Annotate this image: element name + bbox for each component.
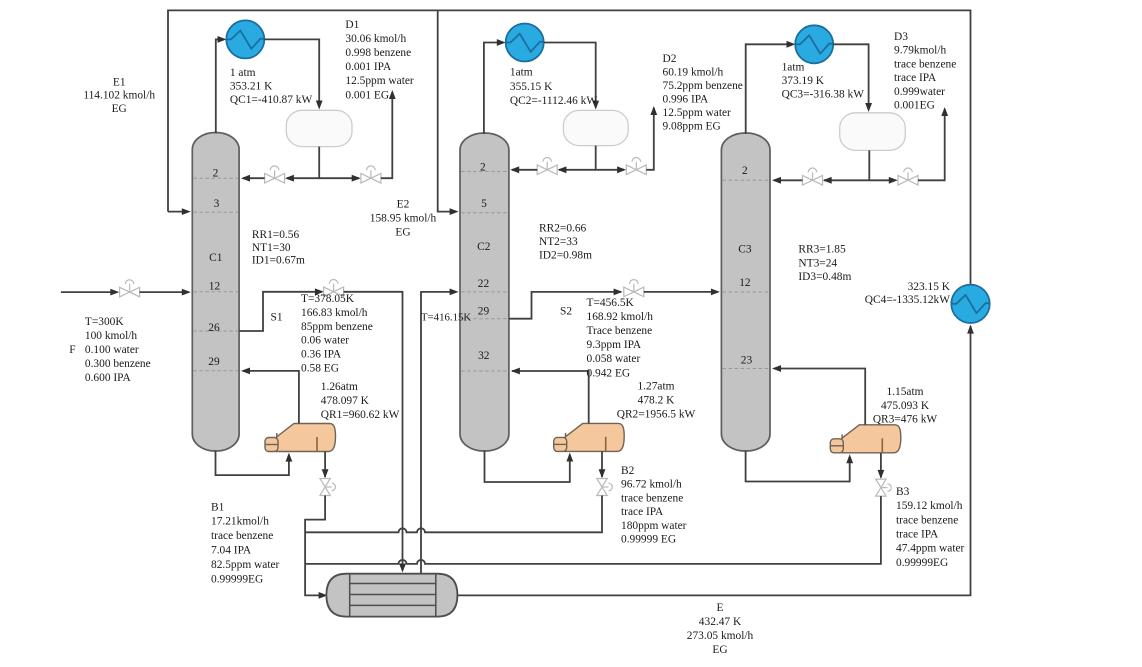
svg-text:30.06 kmol/h: 30.06 kmol/h: [345, 33, 406, 45]
svg-text:114.102 kmol/h: 114.102 kmol/h: [83, 90, 155, 102]
tray line 32 of C2: [461, 370, 508, 372]
wire S2 side draw from C2 tray 29: [509, 292, 621, 319]
svg-text:353.21 K: 353.21 K: [230, 80, 273, 92]
svg-text:17.21kmol/h: 17.21kmol/h: [211, 516, 269, 528]
svg-text:475.093 K: 475.093 K: [881, 400, 930, 412]
valve reflux C3: [803, 168, 823, 185]
tray line 2 of C2: [461, 171, 508, 173]
valve B3: [876, 479, 892, 496]
wire reboiler QR3 vapor return to C3 tray 23: [774, 369, 865, 425]
svg-text:trace benzene: trace benzene: [896, 514, 958, 526]
svg-text:C1: C1: [209, 252, 223, 264]
wire reflux into C1 tray 2: [243, 177, 265, 179]
arrow to reflux valve C1: [285, 175, 294, 182]
svg-text:168.92 kmol/h: 168.92 kmol/h: [587, 311, 654, 323]
svg-text:trace IPA: trace IPA: [894, 72, 937, 84]
svg-text:C3: C3: [738, 244, 752, 256]
svg-text:26: 26: [208, 322, 220, 334]
wire feed F after valve: [140, 291, 188, 293]
svg-text:273.05 kmol/h: 273.05 kmol/h: [687, 630, 754, 642]
svg-text:9.79kmol/h: 9.79kmol/h: [894, 45, 947, 57]
svg-text:96.72 kmol/h: 96.72 kmol/h: [621, 479, 682, 491]
svg-text:QC2=-1112.46 kW: QC2=-1112.46 kW: [510, 95, 597, 107]
wire B3 joining B1 header with line hops: [305, 496, 881, 564]
condenser QC3: [795, 25, 833, 63]
svg-text:0.100 water: 0.100 water: [85, 344, 139, 356]
svg-text:23: 23: [741, 355, 753, 367]
svg-text:32: 32: [478, 350, 490, 362]
svg-text:EG: EG: [395, 227, 410, 239]
svg-text:QR3=476 kW: QR3=476 kW: [873, 414, 938, 426]
reboiler QR3: [842, 425, 901, 453]
svg-text:S1: S1: [271, 311, 283, 323]
svg-text:3: 3: [214, 198, 220, 210]
heat exchanger E shell: [326, 574, 457, 617]
svg-text:2: 2: [213, 167, 219, 179]
reboiler QR1: [277, 424, 336, 452]
condenser QC1: [226, 20, 264, 58]
wire condenser QC3 to reflux drum: [833, 44, 868, 106]
svg-text:B1: B1: [211, 501, 225, 513]
wire S1 to heat exchanger: [344, 292, 403, 571]
svg-text:166.83 kmol/h: 166.83 kmol/h: [301, 307, 368, 319]
wire drum D1 outlet split: [287, 147, 359, 179]
valve reflux C1: [265, 166, 285, 183]
wire B1 bottoms out of reboiler: [324, 452, 326, 478]
svg-text:373.19 K: 373.19 K: [782, 75, 825, 87]
svg-text:75.2ppm benzene: 75.2ppm benzene: [663, 80, 743, 92]
svg-text:0.001 EG: 0.001 EG: [345, 89, 389, 101]
svg-text:EG: EG: [112, 103, 127, 115]
svg-text:5: 5: [481, 198, 487, 210]
svg-text:478.097 K: 478.097 K: [321, 395, 370, 407]
tray line 26 of C1: [194, 330, 239, 332]
wire C3 overhead vapor to condenser: [746, 44, 791, 134]
svg-text:ID2=0.98m: ID2=0.98m: [539, 250, 592, 262]
wire S1 side draw from C1 tray 26: [239, 292, 322, 331]
tray line 22 of C2: [461, 291, 508, 293]
tray line 2 of C1: [194, 177, 239, 179]
svg-text:QC1=-410.87 kW: QC1=-410.87 kW: [230, 94, 313, 106]
svg-text:C2: C2: [477, 241, 491, 253]
svg-text:1.15atm: 1.15atm: [886, 386, 923, 398]
wire top recycle header E: [168, 10, 971, 284]
svg-text:E: E: [717, 602, 724, 614]
svg-text:RR2=0.66: RR2=0.66: [539, 222, 587, 234]
svg-text:0.998 benzene: 0.998 benzene: [345, 47, 411, 59]
svg-text:2: 2: [742, 165, 748, 177]
valve B1: [320, 479, 335, 496]
svg-text:QR1=960.62 kW: QR1=960.62 kW: [321, 409, 400, 421]
svg-text:EG: EG: [712, 644, 727, 656]
valve distillate D1: [361, 166, 381, 183]
wire E2 feed drop into column C2 tray 5: [438, 10, 454, 211]
reboiler QR2: [565, 423, 624, 451]
svg-text:0.999water: 0.999water: [894, 86, 945, 98]
column C2: [460, 133, 509, 451]
svg-text:trace benzene: trace benzene: [621, 492, 683, 504]
tray line 3 of C1: [194, 211, 239, 213]
wire C2 bottoms to reboiler: [485, 451, 570, 483]
wire distillate D2 up: [646, 108, 654, 170]
wire distillate D3 up: [918, 109, 945, 180]
svg-text:D1: D1: [345, 19, 359, 31]
column C1: [192, 133, 239, 452]
svg-text:60.19 kmol/h: 60.19 kmol/h: [663, 66, 724, 78]
valve S2: [624, 280, 644, 297]
valve reflux C2: [537, 158, 557, 175]
wire feed F into C1 tray 12: [61, 291, 111, 293]
svg-text:NT1=30: NT1=30: [252, 242, 291, 254]
wire E outlet to cooler QC4: [457, 326, 970, 595]
wire drum D3 outlet split: [824, 150, 895, 180]
svg-text:NT2=33: NT2=33: [539, 236, 578, 248]
svg-text:0.300 benzene: 0.300 benzene: [85, 358, 151, 370]
svg-text:0.06 water: 0.06 water: [301, 335, 349, 347]
wire reboiler QR1 vapor return to C1 tray 29: [243, 371, 299, 424]
svg-text:1 atm: 1 atm: [230, 67, 256, 79]
svg-text:478.2 K: 478.2 K: [638, 395, 675, 407]
tray line 2 of C3: [723, 179, 769, 181]
svg-text:S2: S2: [560, 305, 572, 317]
svg-text:T=456.5K: T=456.5K: [587, 297, 635, 309]
svg-text:323.15 K: 323.15 K: [908, 281, 951, 293]
svg-text:180ppm water: 180ppm water: [621, 520, 687, 532]
arrow to distillate valve C3: [889, 177, 898, 184]
cooler condenser QC4: [951, 285, 989, 323]
svg-text:0.058 water: 0.058 water: [587, 353, 641, 365]
svg-text:355.15 K: 355.15 K: [510, 81, 553, 93]
svg-text:B3: B3: [896, 486, 910, 498]
tray line 5 of C2: [461, 212, 508, 214]
wire B2 joining B1 header with line hops: [305, 496, 602, 533]
wire drum D2 outlet split: [559, 146, 624, 170]
svg-text:29: 29: [478, 305, 490, 317]
wire E1 feed into column C1 tray 3: [168, 211, 186, 213]
condenser QC2: [506, 24, 544, 62]
svg-text:trace benzene: trace benzene: [894, 58, 956, 70]
svg-text:432.47 K: 432.47 K: [699, 616, 742, 628]
svg-text:trace IPA: trace IPA: [621, 506, 664, 518]
svg-text:0.996 IPA: 0.996 IPA: [663, 93, 710, 105]
wire reboiler QR2 vapor return to C2 tray 32: [512, 371, 589, 423]
svg-text:2: 2: [480, 162, 486, 174]
wire B2 bottoms out of reboiler: [601, 451, 603, 477]
valve distillate D2: [626, 158, 646, 175]
svg-text:12: 12: [739, 277, 751, 289]
svg-text:ID1=0.67m: ID1=0.67m: [252, 254, 305, 266]
svg-text:9.3ppm IPA: 9.3ppm IPA: [587, 339, 642, 351]
svg-text:D2: D2: [663, 53, 677, 65]
arrow to reflux valve C3: [823, 177, 832, 184]
svg-text:trace benzene: trace benzene: [211, 530, 273, 542]
svg-text:22: 22: [478, 278, 490, 290]
heat exchanger E tube bundle: [350, 574, 436, 617]
wire B3 bottoms out of reboiler: [880, 453, 882, 477]
arrow to distillate valve C2: [617, 166, 626, 173]
svg-text:0.001EG: 0.001EG: [894, 100, 935, 112]
valve distillate D3: [898, 168, 918, 185]
wire condenser QC2 to reflux drum: [544, 43, 596, 105]
svg-text:ID3=0.48m: ID3=0.48m: [798, 271, 851, 283]
svg-text:0.58 EG: 0.58 EG: [301, 363, 339, 375]
valve feed F: [120, 280, 140, 297]
svg-text:RR3=1.85: RR3=1.85: [798, 244, 846, 256]
svg-text:12.5ppm water: 12.5ppm water: [345, 75, 414, 87]
svg-text:82.5ppm water: 82.5ppm water: [211, 559, 280, 571]
svg-text:B2: B2: [621, 465, 635, 477]
svg-text:QC3=-316.38 kW: QC3=-316.38 kW: [782, 89, 865, 101]
svg-text:85ppm benzene: 85ppm benzene: [301, 321, 373, 333]
svg-text:1atm: 1atm: [782, 62, 805, 74]
wire reflux into C3 tray 2: [774, 179, 803, 181]
svg-text:1atm: 1atm: [510, 67, 533, 79]
svg-text:T=416.15K: T=416.15K: [421, 312, 471, 324]
svg-text:QR2=1956.5 kW: QR2=1956.5 kW: [617, 409, 696, 421]
arrow to distillate valve C1: [352, 175, 361, 182]
wire heated S1 from exchanger into C2 tray 22: [421, 292, 455, 574]
valve B2: [597, 479, 612, 496]
svg-text:E1: E1: [113, 76, 126, 88]
wire distillate D1 up: [381, 92, 392, 178]
wire B1 to exchanger inlet: [305, 496, 325, 596]
wire C2 overhead vapor to condenser: [484, 43, 501, 135]
wire condenser QC1 to reflux drum: [264, 39, 319, 104]
svg-text:12: 12: [209, 281, 221, 293]
svg-text:47.4ppm water: 47.4ppm water: [896, 543, 965, 555]
wire C3 bottoms to reboiler: [746, 451, 850, 482]
svg-text:0.99999EG: 0.99999EG: [211, 573, 263, 585]
svg-text:0.600 IPA: 0.600 IPA: [85, 372, 132, 384]
tray line 23 of C3: [723, 368, 769, 370]
valve S1: [324, 279, 344, 296]
column C3: [721, 133, 770, 451]
svg-text:0.36 IPA: 0.36 IPA: [301, 349, 342, 361]
tray line 29 of C2: [461, 318, 508, 320]
svg-text:12.5ppm water: 12.5ppm water: [663, 107, 732, 119]
svg-text:1.27atm: 1.27atm: [637, 381, 674, 393]
wire S2 into C3 tray 12: [644, 291, 717, 293]
svg-text:29: 29: [208, 356, 220, 368]
svg-text:100 kmol/h: 100 kmol/h: [85, 330, 138, 342]
svg-text:Trace benzene: Trace benzene: [587, 325, 653, 337]
svg-text:159.12 kmol/h: 159.12 kmol/h: [896, 500, 963, 512]
svg-text:F: F: [69, 344, 75, 356]
svg-text:trace IPA: trace IPA: [896, 529, 939, 541]
svg-text:0.942 EG: 0.942 EG: [587, 367, 631, 379]
svg-text:7.04 IPA: 7.04 IPA: [211, 545, 252, 557]
arrow to reflux valve C2: [557, 166, 566, 173]
wire C1 overhead vapor to condenser: [216, 39, 222, 133]
wire reflux into C2 tray 2: [512, 169, 537, 171]
reflux drum D2: [563, 110, 628, 145]
wire C1 bottoms to reboiler: [216, 451, 289, 476]
svg-text:9.08ppm EG: 9.08ppm EG: [663, 120, 721, 132]
svg-text:1.26atm: 1.26atm: [321, 381, 358, 393]
svg-text:D3: D3: [894, 31, 908, 43]
svg-text:QC4=-1335.12kW: QC4=-1335.12kW: [865, 294, 950, 306]
tray line 12 of C1: [194, 291, 239, 293]
svg-text:T=378.05K: T=378.05K: [301, 293, 355, 305]
reflux drum D1: [286, 110, 352, 146]
tray line 29 of C1: [194, 370, 239, 372]
svg-text:0.99999EG: 0.99999EG: [896, 557, 948, 569]
svg-text:NT3=24: NT3=24: [798, 257, 837, 269]
svg-text:RR1=0.56: RR1=0.56: [252, 229, 300, 241]
svg-text:0.001 IPA: 0.001 IPA: [345, 61, 392, 73]
svg-text:T=300K: T=300K: [85, 316, 124, 328]
tray line 12 of C3: [723, 291, 769, 293]
svg-text:158.95 kmol/h: 158.95 kmol/h: [370, 213, 437, 225]
svg-text:E2: E2: [397, 198, 410, 210]
svg-text:0.99999 EG: 0.99999 EG: [621, 534, 676, 546]
reflux drum D3: [840, 113, 906, 151]
